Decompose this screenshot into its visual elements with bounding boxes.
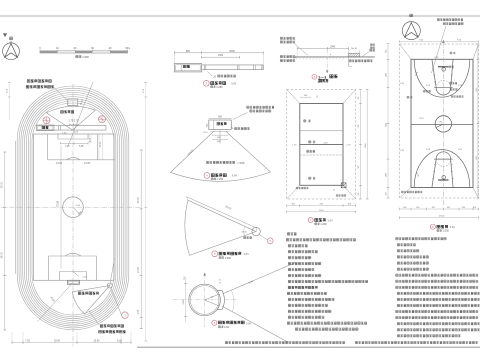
label shakeng: [42, 126, 48, 129]
basketball north arrow: [402, 22, 420, 40]
leader to red callout 3: [111, 288, 122, 315]
center circle: [63, 197, 84, 218]
svg-text:40: 40: [109, 47, 112, 50]
diagonal dim bottom 45.00: [38, 282, 74, 322]
scale bar: [40, 51, 128, 53]
svg-text:9.84: 9.84: [450, 225, 456, 229]
svg-text:2.00: 2.00: [74, 132, 79, 134]
svg-text:200: 200: [206, 123, 208, 127]
throwing circle: [189, 284, 221, 316]
svg-text:1:250: 1:250: [225, 257, 232, 260]
svg-text:21.25: 21.25: [138, 266, 140, 272]
svg-text:20: 20: [219, 280, 221, 282]
svg-text:300: 300: [403, 207, 406, 209]
bottom corner texts: [296, 187, 308, 189]
center circle: [435, 116, 451, 132]
sector dim 20.00: [187, 197, 257, 228]
basketball centerline axis: [442, 41, 444, 206]
sector lines 34.92deg: [223, 263, 296, 294]
high jump fan in field: [46, 106, 95, 130]
svg-text:20: 20: [214, 77, 217, 79]
rubber strip hatched: [349, 53, 360, 57]
svg-text:1400: 1400: [476, 87, 478, 92]
volleyball corner diagonals: [287, 89, 300, 103]
track note top-left: [27, 80, 51, 83]
section note left 2: [280, 55, 295, 57]
basketball title: [430, 224, 435, 229]
svg-text:8: 8: [432, 225, 434, 229]
right dim line: [140, 150, 142, 329]
basketball left dim column: [387, 44, 389, 198]
referee stand: [341, 183, 346, 188]
svg-text:32.50: 32.50: [94, 339, 101, 342]
high jump title: [204, 173, 210, 179]
high jump note: [247, 106, 274, 108]
svg-text:50m: 50m: [125, 47, 130, 50]
svg-text:9.84: 9.84: [246, 322, 251, 325]
long jump runway strip: [37, 125, 107, 127]
svg-text:7.25: 7.25: [79, 145, 84, 148]
svg-text:6: 6: [314, 75, 316, 79]
bottom separator line: [137, 346, 480, 348]
svg-text:30: 30: [333, 190, 335, 192]
basketball top dim: [400, 41, 479, 43]
svg-text:12: 12: [219, 282, 221, 284]
strip note: [349, 60, 372, 62]
ground line: [294, 56, 375, 58]
shot put circle in field: [107, 283, 112, 288]
bottom key: [432, 159, 436, 187]
svg-text:900: 900: [358, 123, 360, 127]
svg-text:400: 400: [217, 137, 221, 139]
pitch top dims: [61, 142, 89, 144]
svg-text:800: 800: [186, 50, 191, 53]
bottom penalty area: [48, 256, 50, 280]
svg-text:6.25: 6.25: [7, 88, 9, 93]
top backboard and rim: [438, 66, 449, 68]
svg-text:1.25: 1.25: [400, 150, 405, 152]
attack line upper: [300, 130, 343, 132]
volleyball right dims: [359, 89, 361, 199]
svg-text:i<1/25: i<1/25: [238, 162, 245, 165]
svg-text:1400: 1400: [386, 73, 388, 77]
svg-text:0: 0: [39, 47, 41, 50]
shot put sector: [185, 200, 256, 255]
center line: [300, 143, 343, 145]
section centerline: [326, 49, 328, 73]
basketball note top-right: [437, 19, 463, 21]
section title: [312, 74, 317, 79]
svg-text:7: 7: [310, 218, 312, 222]
svg-text:20.00: 20.00: [225, 205, 232, 211]
attack line lower dashed: [300, 154, 343, 156]
centerlines: [204, 273, 206, 327]
svg-text:7.25: 7.25: [65, 145, 70, 148]
pitch height dim: [60, 146, 62, 269]
bottom goal box: [59, 272, 61, 281]
svg-text:5: 5: [214, 252, 216, 256]
outer dim columns: [145, 83, 147, 342]
svg-text:45.00: 45.00: [49, 297, 55, 303]
top key: [432, 59, 436, 87]
high jump landing pad: [68, 99, 78, 106]
bottom backboard and rim: [438, 179, 449, 181]
top penalty arc: [67, 157, 80, 159]
mid court line: [411, 123, 473, 125]
svg-text:7.50: 7.50: [419, 40, 424, 42]
notes left column: [287, 233, 296, 235]
label qianqiu touzhi changdi: [78, 292, 98, 295]
section note left 1: [280, 37, 295, 39]
svg-text:1.75: 1.75: [292, 144, 297, 146]
notes right column: [396, 238, 446, 240]
running track lanes: [32, 103, 114, 315]
long jump runway: [202, 64, 264, 66]
svg-text:13.00: 13.00: [84, 162, 91, 165]
svg-text:1500: 1500: [218, 55, 224, 57]
svg-text:1400: 1400: [386, 173, 388, 177]
corner tick top-left: [3, 34, 7, 37]
angle vee from center: [205, 294, 220, 300]
svg-text:34.92: 34.92: [242, 231, 248, 233]
svg-text:6.25: 6.25: [143, 88, 145, 93]
svg-text:900: 900: [358, 164, 360, 168]
top penalty area: [47, 134, 49, 160]
svg-text:9.84: 9.84: [232, 173, 238, 177]
svg-text:6.25: 6.25: [138, 309, 140, 314]
top border line: [0, 15, 480, 17]
svg-text:2135: 2135: [183, 299, 185, 305]
pad post note: [231, 127, 233, 129]
svg-text:13.00: 13.00: [56, 162, 63, 165]
bottom penalty arc: [65, 253, 81, 256]
strip leader: [362, 52, 370, 57]
svg-text:1.75: 1.75: [346, 144, 351, 146]
svg-text:28.00: 28.00: [439, 216, 445, 218]
throwing circle title: [212, 320, 217, 325]
svg-text:4.90: 4.90: [435, 57, 440, 59]
small label pair left of basketball dims: [370, 44, 374, 46]
svg-text:450: 450: [432, 207, 435, 209]
svg-text:6.25: 6.25: [117, 339, 122, 342]
label tiaogao changdi: [61, 111, 74, 113]
leader to red callout: [259, 235, 267, 240]
section dim: [297, 47, 348, 49]
high jump fan: [171, 132, 271, 182]
runway leader note: [208, 72, 213, 77]
svg-text:4: 4: [206, 174, 208, 178]
svg-text:20: 20: [74, 47, 77, 50]
svg-text:2.75 2.75: 2.75 2.75: [69, 119, 80, 122]
svg-text:300: 300: [358, 95, 360, 99]
svg-text:450: 450: [447, 207, 450, 209]
goal: [68, 280, 80, 284]
svg-text:2800: 2800: [386, 123, 388, 127]
svg-text:1.25: 1.25: [458, 149, 463, 151]
svg-text:75.00: 75.00: [57, 200, 60, 207]
svg-text:60.00: 60.00: [138, 196, 140, 202]
stop board lune: [217, 291, 224, 310]
svg-text:8: 8: [214, 321, 216, 325]
svg-text:10: 10: [56, 47, 59, 50]
basketball boundary dashed: [400, 44, 479, 198]
svg-text:40: 40: [211, 297, 214, 299]
basketball right dim: [477, 44, 479, 198]
svg-text:1:250: 1:250: [216, 86, 223, 89]
red callout right: [99, 116, 106, 123]
svg-text:1.25: 1.25: [426, 149, 431, 151]
long jump title: [203, 80, 209, 86]
svg-text:300: 300: [386, 50, 388, 53]
svg-text:400: 400: [217, 141, 221, 143]
bottom 3pt arc: [414, 150, 470, 188]
svg-text:1.80: 1.80: [439, 122, 443, 124]
volleyball labels: [304, 120, 311, 122]
svg-text:1:250: 1:250: [217, 178, 224, 181]
left dims: [185, 277, 187, 322]
svg-text:55.00: 55.00: [2, 181, 4, 187]
svg-text:750: 750: [184, 276, 186, 280]
sector vertex circle: [252, 227, 260, 235]
svg-text:3: 3: [124, 313, 126, 317]
svg-text:300: 300: [304, 95, 308, 97]
top goal box: [57, 134, 59, 139]
basketball bottom dims: [400, 208, 479, 210]
extra outer lane line left: [15, 141, 17, 274]
svg-text:9.84: 9.84: [244, 252, 250, 256]
svg-text:1.25: 1.25: [400, 83, 405, 85]
top bold label: [319, 79, 328, 81]
svg-text:30: 30: [317, 95, 319, 98]
volleyball court: [300, 104, 343, 186]
bottom note row: [225, 342, 345, 344]
stop board label: [244, 237, 252, 239]
svg-text:13.50: 13.50: [100, 141, 102, 147]
sand pit: [37, 125, 55, 131]
basketball labels: [450, 52, 455, 54]
svg-text:9.84: 9.84: [328, 218, 334, 222]
svg-text:2940: 2940: [330, 46, 336, 48]
svg-text:1—1: 1—1: [318, 74, 327, 79]
svg-text:34.92: 34.92: [248, 280, 254, 284]
svg-text:92.5: 92.5: [203, 132, 208, 134]
svg-text:20×30: 20×30: [351, 47, 358, 50]
top 3pt arc: [414, 59, 470, 97]
svg-text:9.84: 9.84: [231, 81, 237, 85]
svg-text:R1.8: R1.8: [420, 118, 424, 120]
volleyball title: [308, 218, 313, 223]
volleyball bottom dims: [287, 205, 356, 207]
svg-text:2400: 2400: [365, 143, 367, 148]
svg-text:3: 3: [205, 81, 207, 85]
svg-text:500: 500: [218, 116, 223, 118]
svg-text:300: 300: [386, 192, 388, 195]
north arrow site: [3, 43, 20, 60]
svg-text:1:500: 1:500: [82, 55, 89, 59]
football pitch: [34, 134, 115, 280]
long jump sand pit: [174, 64, 201, 72]
high jump landing pad: [209, 120, 232, 130]
svg-text:30: 30: [91, 47, 94, 50]
top small dims: [300, 96, 311, 98]
svg-text:45.00: 45.00: [2, 251, 4, 257]
svg-text:1.25: 1.25: [426, 85, 431, 87]
svg-text:1:200: 1:200: [443, 230, 450, 233]
basketball court: [411, 59, 473, 187]
shot put sector title: [212, 251, 218, 257]
svg-text:450: 450: [462, 207, 465, 209]
bottom dim line: [12, 341, 131, 343]
track axes: [72, 84, 74, 346]
svg-text:2.00: 2.00: [76, 205, 81, 207]
red callout left: [43, 117, 50, 124]
svg-text:1400: 1400: [476, 155, 478, 160]
svg-text:5: 5: [269, 239, 271, 243]
svg-text:32.50: 32.50: [54, 339, 61, 342]
svg-text:3000: 3000: [229, 50, 235, 53]
svg-text:7.50: 7.50: [457, 40, 462, 42]
high jump pad dims: [209, 118, 232, 120]
shot put fan in field: [72, 286, 110, 315]
track note bottom: [100, 325, 123, 327]
left dim line: [4, 152, 6, 330]
diagonal dim 45.00: [68, 82, 93, 146]
svg-text:450: 450: [416, 207, 419, 209]
long jump detail: dims: [175, 52, 264, 54]
fan slope note: [207, 161, 235, 163]
svg-text:2.00: 2.00: [83, 277, 88, 279]
below pad dims: [219, 130, 221, 144]
svg-text:300: 300: [358, 191, 360, 195]
svg-text:4: 4: [330, 54, 332, 56]
svg-text:1:200: 1:200: [320, 223, 327, 226]
svg-text:7.50: 7.50: [25, 339, 30, 342]
volleyball outer boundary dashed: [287, 89, 356, 199]
svg-text:300: 300: [473, 207, 476, 209]
svg-text:1:50: 1:50: [224, 326, 229, 329]
